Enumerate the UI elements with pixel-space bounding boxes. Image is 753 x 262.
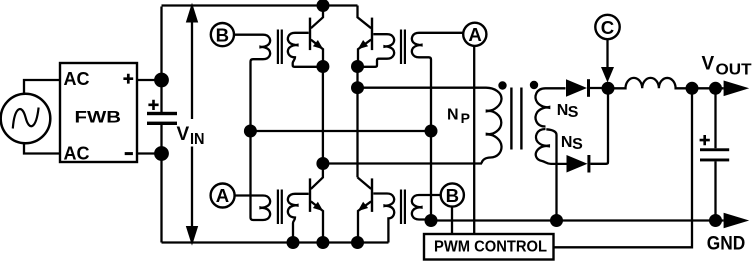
wire primary top feed	[358, 87, 484, 89]
diode D1 top	[566, 79, 608, 97]
transistor Q3 (bottom-left NPN)	[309, 164, 323, 243]
svg-text:GND: GND	[707, 232, 746, 254]
node center tap ground	[550, 214, 563, 227]
transformer T4 core	[401, 30, 405, 65]
arrow C probe	[601, 67, 614, 83]
transformer T2 secondary (to Q3 base)	[288, 194, 309, 243]
wire leg Y vertical	[356, 67, 358, 178]
diode D2 bottom	[567, 88, 609, 173]
transformer T3 core	[510, 88, 522, 150]
AC source VS1	[1, 94, 51, 144]
svg-text:FWB: FWB	[75, 107, 122, 126]
transformer T4 secondary (to Q2 base, top-right)	[362, 34, 394, 67]
transformer T5 primary (B drive, bottom-right)	[412, 195, 440, 221]
node cap ground	[709, 214, 722, 227]
label V_OUT	[702, 54, 752, 79]
node FWB-	[154, 146, 169, 161]
svg-text:N: N	[561, 134, 573, 151]
svg-text:N: N	[557, 102, 569, 119]
wire A to PWM control	[473, 46, 475, 234]
inductor L1	[608, 78, 724, 88]
rectifier FWB	[60, 63, 137, 164]
svg-text:A: A	[216, 185, 229, 206]
node rectified output	[602, 82, 615, 95]
wire feedback Vout to PWM	[554, 88, 693, 247]
wire V+ rail left vertical	[160, 7, 162, 113]
wire FWB minus output	[137, 152, 162, 154]
svg-text:B: B	[446, 185, 459, 206]
arrow Vout	[724, 81, 750, 97]
svg-text:V: V	[177, 124, 190, 145]
wire V- rail left vertical	[160, 125, 162, 243]
svg-text:V: V	[702, 54, 715, 75]
svg-text:S: S	[572, 136, 583, 153]
svg-text:S: S	[568, 104, 579, 121]
transformer T3 secondary NS top	[536, 88, 566, 126]
transistor Q1 (top-left NPN)	[309, 6, 323, 67]
svg-text:AC: AC	[64, 69, 90, 89]
node top rail Q1 collector junction	[317, 0, 330, 12]
label V_IN	[177, 124, 205, 148]
wire drive return horizontal	[250, 130, 431, 132]
svg-text:B: B	[216, 24, 229, 45]
svg-text:N: N	[447, 106, 459, 123]
transformer T2 primary (A drive, bottom-left)	[234, 131, 270, 220]
node Q1 emitter junction	[316, 60, 329, 73]
svg-text:P: P	[461, 110, 470, 126]
wire C probe	[606, 40, 608, 68]
transformer T3 secondary NS bottom	[536, 129, 567, 164]
wire FWB plus output	[137, 79, 162, 81]
wire bottom rail V-	[162, 241, 389, 243]
label circle A bottom-left	[211, 184, 235, 208]
transformer T3 main primary N_P	[482, 88, 502, 164]
wire center tap to ground	[546, 129, 556, 220]
transformer T4 primary (A drive, top-right)	[412, 33, 463, 131]
svg-text:IN: IN	[190, 131, 205, 148]
phase dot primary	[498, 81, 506, 89]
transformer T1 primary (B drive, top-left)	[234, 35, 270, 131]
wire drive return right vertical	[430, 131, 432, 221]
transformer T5 secondary (to Q4 base, bottom-right)	[373, 194, 394, 243]
svg-text:OUT: OUT	[716, 61, 752, 78]
node Vout cap	[709, 82, 722, 95]
wire ground rail	[431, 219, 724, 221]
node FWB+	[154, 73, 169, 88]
label NS bottom	[561, 134, 583, 153]
label circle B bottom-right	[441, 183, 464, 206]
label NS top	[557, 102, 579, 121]
node Q4 emitter on rail	[351, 236, 364, 249]
wire leg X vertical	[322, 67, 324, 164]
node leg X to primary bottom	[316, 157, 329, 170]
label circle A top-right	[463, 23, 486, 46]
node drive return left	[244, 125, 257, 138]
svg-text:A: A	[468, 24, 481, 45]
transformer T1 core	[278, 30, 282, 65]
wire AC source top to FWB	[24, 80, 60, 95]
node Q2 emitter junction	[351, 60, 364, 73]
transformer T5 core	[401, 190, 405, 225]
node Q3 emitter on rail	[316, 236, 329, 249]
phase dot secondary	[530, 81, 538, 89]
label N_P	[447, 106, 470, 125]
node T5 primary return	[425, 214, 438, 227]
node T2 secondary return on rail	[287, 236, 300, 249]
transistor Q4 (bottom-right NPN)	[358, 177, 374, 242]
capacitor C2 output	[700, 88, 730, 220]
V_IN measure arrow	[186, 3, 198, 246]
wire primary bottom feed	[323, 162, 482, 164]
transistor Q2 (top-right NPN)	[358, 6, 374, 67]
PWM CONTROL box U1	[424, 234, 554, 260]
node Vout sense	[686, 82, 699, 95]
transformer T2 core	[278, 190, 282, 225]
capacitor C1 input bulk	[147, 100, 177, 125]
svg-text:PWM CONTROL: PWM CONTROL	[434, 239, 547, 256]
svg-text:C: C	[601, 17, 614, 38]
label circle B top-left	[211, 23, 234, 46]
node primary top tap	[351, 81, 364, 94]
svg-text:AC: AC	[64, 144, 90, 164]
transformer T1 secondary (to Q1 base)	[288, 33, 318, 67]
wire B to PWM control	[451, 207, 453, 234]
arrow GND	[724, 213, 750, 229]
node drive return right	[425, 125, 438, 138]
label circle C	[595, 15, 619, 39]
wire top rail V+	[162, 4, 358, 6]
wire AC source bottom to FWB	[24, 143, 60, 154]
